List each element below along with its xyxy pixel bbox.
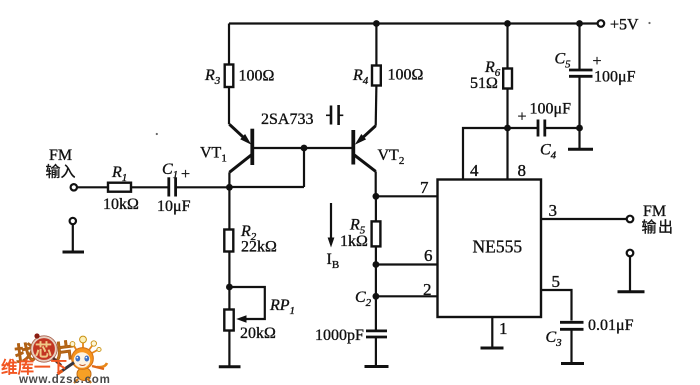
current arrow IB [328,203,335,248]
node: RP1 tap junction [226,284,233,291]
transistor VT1 (2SA733 PNP) [229,124,252,172]
wire: pin 5 [541,290,572,321]
capacitor C5 [569,70,593,76]
wire: R1 to C1 [131,186,168,188]
wire: pin2 node to C2 [375,296,377,329]
resistor R2 [224,230,233,252]
wire: R2 to RP1 [228,252,230,310]
svg-text:+: + [593,53,602,70]
wire: C4 to C5 node [545,127,580,129]
wire: VT1 base to common base node [254,147,304,149]
wire: base node to input node [229,186,304,188]
wire: RP1 wiper loop [229,287,264,319]
wire: C1 to input node [176,186,230,188]
svg-text:100Ω: 100Ω [388,67,424,84]
svg-text:2SA733: 2SA733 [261,111,313,128]
svg-text:+: + [181,166,190,183]
wire: pin 3 [541,218,627,220]
node: common bases [301,145,308,152]
svg-text:4: 4 [470,161,479,180]
svg-text:芯: 芯 [35,340,52,360]
resistor R6 [503,69,512,89]
wire: junction to ground (C4) [578,128,580,149]
wire: R3 to VT1 emitter [228,87,230,124]
svg-text:100μF: 100μF [530,101,572,118]
svg-text:10kΩ: 10kΩ [103,196,139,213]
node: R4 top junction [373,20,380,27]
transistor VT2 (2SA733 PNP) [353,126,375,172]
svg-text:+5V: +5V [610,17,639,34]
terminal: FM input [71,184,77,190]
capacitor C3 [560,322,584,329]
wire: pin 2 [376,295,438,297]
ground: C3 [561,362,584,365]
svg-text:输入: 输入 [46,164,76,181]
resistor R4 [372,66,381,86]
wire: rail to R4 [375,24,377,66]
IC U1 NE555 [438,180,542,318]
wire: rail to C5 [578,24,580,70]
watermark: dzsc.com logo [1,333,111,385]
wire: VT2 collector down to pin7 node [375,171,377,196]
wire: rail to R6 [506,24,508,69]
node: pin 6 junction [373,261,380,268]
svg-text:7: 7 [420,178,429,197]
wire: pin 4 [463,128,508,180]
resistor R1 [108,183,131,192]
svg-text:22kΩ: 22kΩ [241,239,277,256]
svg-text:www.dzsc.com: www.dzsc.com [18,374,111,385]
terminal: +5V [598,20,605,27]
symbol: matched-pair capacitor glyph [326,105,343,125]
svg-text:NE555: NE555 [473,236,523,256]
ground: pin 1 [481,347,504,350]
node: pin 2 / C2 junction [373,293,380,300]
wire: input node to R2 [228,187,230,229]
resistor R5 [372,221,381,246]
svg-text:5: 5 [552,272,561,291]
svg-text:1kΩ: 1kΩ [340,233,368,250]
wire: VT1 collector down to input node [228,172,230,187]
wire: +5V top supply rail [229,22,598,24]
wire: base node to VT2 base [304,147,352,149]
wire: base node down [303,148,305,187]
node: C4 / C5 junction [576,125,583,132]
watermark mascot [58,336,108,383]
svg-text:FM: FM [49,147,72,164]
node: C5 top junction [576,20,583,27]
wire: R6 to junction [506,89,508,129]
svg-text:100μF: 100μF [594,69,636,86]
svg-text:10μF: 10μF [157,198,191,215]
svg-text:输出: 输出 [642,219,675,236]
wire: R5 to pin6 node [375,246,377,264]
wire: RP1 to ground [228,331,230,367]
wire: junction to C4 [508,127,538,129]
svg-text:0.01μF: 0.01μF [588,317,634,334]
svg-text:1: 1 [499,319,508,338]
svg-text:+: + [518,109,527,126]
ground: C2 [365,365,389,368]
ground: FM input [63,218,85,252]
wire: pin6 node to pin2 node [375,265,377,297]
node: R6 / pins 4,8 / C4 junction [504,125,511,132]
node: VT1 collector / C1 / R2 [226,184,233,191]
ground: C4/C5 [568,148,593,151]
svg-text:2: 2 [423,280,432,299]
watermark magnifier [32,337,56,361]
node: R6 top junction [504,20,511,27]
wire: C2 to ground [375,337,377,366]
wire: R4 to VT2 emitter [375,86,378,126]
wire: pin7 node to R5 [375,196,377,221]
wire: pin 6 [376,263,438,265]
capacitor C4 [538,120,545,137]
wire: pin 1 [491,317,493,348]
wire: input terminal to R1 [77,186,108,188]
potentiometer RP1 [224,310,233,331]
wire: C5 to junction [578,76,580,128]
svg-text:3: 3 [549,201,558,220]
capacitor C2 [366,331,387,337]
wire: pin 8 [506,128,508,180]
svg-text:1000pF: 1000pF [315,327,364,344]
capacitor C1 [169,177,176,196]
terminal: FM output [627,216,634,223]
scan speck near +5V [648,22,650,24]
ground: FM output [618,250,645,292]
scan speck left of 2SA733 [156,133,158,135]
node: pin 7 junction [373,193,380,200]
resistor R3 [225,65,234,88]
wire: C3 to ground [570,329,572,363]
ground: RP1 [219,365,241,368]
svg-text:FM: FM [643,203,666,220]
wire: rail to R3 [228,24,230,65]
svg-text:8: 8 [518,161,527,180]
svg-text:20kΩ: 20kΩ [240,325,276,342]
svg-text:100Ω: 100Ω [239,68,275,85]
svg-text:6: 6 [424,246,433,265]
wire: pin 7 [376,195,438,197]
svg-text:51Ω: 51Ω [470,75,498,92]
